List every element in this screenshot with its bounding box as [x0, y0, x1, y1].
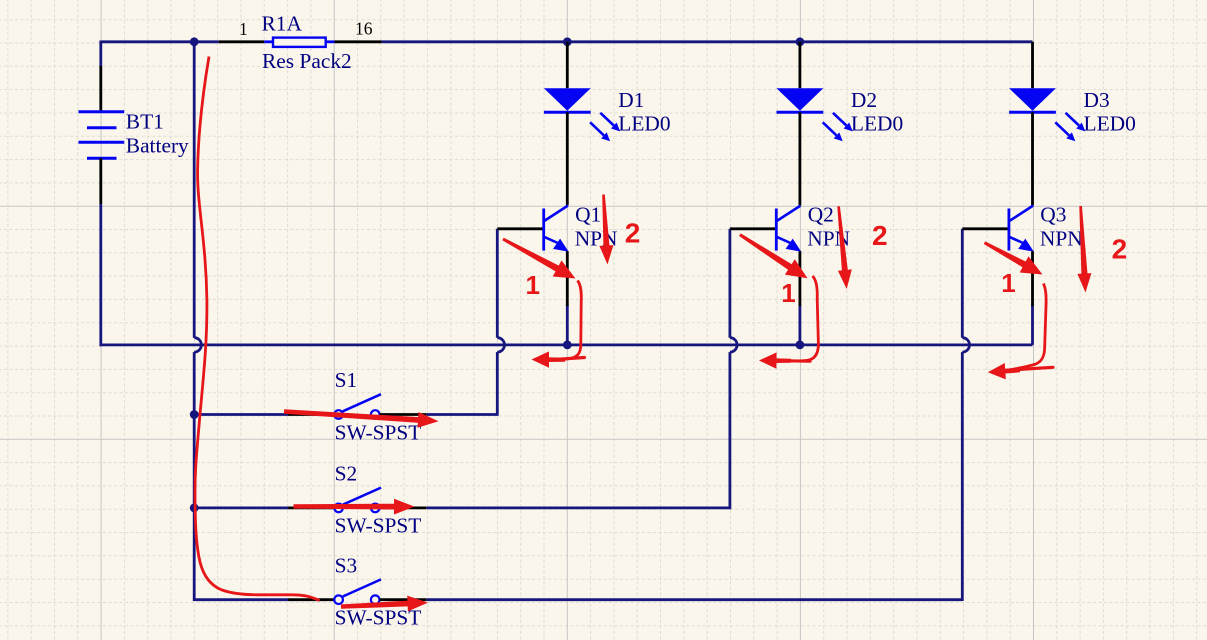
transistor Q1 emitter pin: [566, 251, 569, 306]
annotation: arrow through switch S2: [294, 499, 415, 515]
svg-text:S1: S1: [335, 368, 358, 392]
svg-text:Res Pack2: Res Pack2: [262, 49, 352, 73]
LED D1 body: [544, 88, 591, 112]
annotation: arrow through switch S3: [341, 596, 428, 612]
junction switch feed / S2: [190, 504, 199, 513]
LED D2 light-emission arrow 2: [823, 122, 843, 141]
svg-text:R1A: R1A: [262, 12, 303, 36]
svg-text:16: 16: [355, 19, 373, 39]
wire hop: Q1 base feed over bottom bus: [497, 338, 504, 352]
label SW-SPST value: [335, 514, 422, 538]
svg-text:Battery: Battery: [126, 134, 189, 158]
resistor R1A pin 16 lead: [326, 40, 382, 43]
LED D2 anode pin: [799, 42, 802, 88]
wire battery negative to bottom bus: [99, 204, 102, 346]
label NPN value: [575, 227, 618, 251]
annotation: left arrowhead on bottom bus at Q2: [759, 352, 791, 368]
transistor Q3 emitter pin: [1031, 251, 1034, 306]
wire base feed vertical S3 to Q3: [961, 229, 964, 601]
switch S3 body: [334, 579, 381, 604]
wire hop: Q3 base feed over bottom bus: [962, 338, 969, 352]
junction top bus / D2: [796, 37, 805, 46]
svg-text:1: 1: [526, 270, 540, 300]
label S2 designator: [335, 462, 358, 486]
wire S3 row left segment: [194, 598, 288, 601]
svg-text:LED0: LED0: [618, 111, 670, 135]
LED D1 cathode pin: [566, 112, 569, 205]
label NPN value: [1040, 227, 1083, 251]
label S1 designator: [335, 368, 358, 392]
annotation: arrow 2 at Q1: [599, 194, 613, 264]
label Res Pack2 value: [262, 49, 352, 73]
svg-text:D3: D3: [1084, 88, 1110, 112]
annotation: freehand current path at Q3: [1006, 284, 1053, 371]
LED D3 cathode pin: [1031, 112, 1034, 205]
annotation: arrow 1 pointing at Q2 collector: [739, 233, 807, 278]
wire top bus left (battery+ to R1A pin1): [101, 40, 219, 43]
switch S1 right pin: [380, 413, 427, 416]
label Q2 designator: [808, 203, 834, 227]
transistor Q2 emitter pin: [799, 251, 802, 306]
svg-text:Q3: Q3: [1040, 203, 1066, 227]
resistor R1A pin 1 lead: [219, 40, 273, 43]
annotation: red freehand stroke from top bus to S3: [195, 57, 320, 601]
label Battery value: [126, 134, 189, 158]
wire S1 row left segment: [194, 413, 288, 416]
annotation: freehand current path at Q1: [551, 281, 585, 360]
svg-text:LED0: LED0: [851, 111, 903, 135]
LED D3 light-emission arrow 2: [1055, 122, 1075, 141]
wire base feed vertical S2 to Q2: [729, 229, 732, 509]
switch S1 left pin: [288, 413, 334, 416]
junction switch feed / S1: [190, 410, 199, 419]
LED D1 anode pin: [566, 42, 569, 88]
svg-text:1: 1: [781, 278, 795, 308]
label D3 designator: [1084, 88, 1110, 112]
label R1A designator: [262, 12, 303, 36]
wire S2 row left segment: [194, 506, 288, 509]
svg-text:BT1: BT1: [126, 110, 164, 134]
transistor Q3 body: [1009, 206, 1034, 252]
transistor Q3 base pin: [962, 227, 1009, 230]
annotation: number 1 at Q1: [526, 270, 540, 300]
LED D2 cathode pin: [799, 112, 802, 205]
svg-text:Q1: Q1: [575, 203, 601, 227]
switch S2 left pin: [288, 506, 334, 509]
label S3 designator: [335, 553, 358, 577]
switch S3 right pin: [380, 598, 427, 601]
wire bottom bus (emitter/ground rail): [101, 343, 1033, 346]
wire Q3 emitter to bottom bus: [1031, 305, 1034, 345]
label LED0 value: [1084, 111, 1136, 135]
annotation: freehand current path at Q2: [777, 276, 818, 361]
resistor R1A body: [273, 38, 326, 47]
wire hop: switch feed over bottom bus: [194, 338, 201, 352]
wire Q2 emitter to bottom bus: [799, 305, 802, 345]
wire S3 row right segment to base feed: [427, 598, 963, 601]
svg-text:S2: S2: [335, 462, 358, 486]
switch S3 left pin: [288, 598, 334, 601]
junction bottom bus / Q2 emitter: [796, 341, 805, 350]
junction top bus / D1: [563, 37, 572, 46]
pin number 16: [355, 19, 373, 39]
svg-text:D1: D1: [618, 88, 644, 112]
label D2 designator: [851, 88, 877, 112]
svg-text:LED0: LED0: [1084, 111, 1136, 135]
label D1 designator: [618, 88, 644, 112]
svg-text:D2: D2: [851, 88, 877, 112]
label SW-SPST value: [335, 420, 422, 444]
junction top bus / switch feed: [190, 37, 199, 46]
wire hop: Q2 base feed over bottom bus: [730, 338, 737, 352]
annotation: arrow 1 pointing at Q1 collector: [502, 238, 575, 279]
label Q3 designator: [1040, 203, 1066, 227]
svg-text:2: 2: [872, 220, 888, 251]
LED D3 light-emission arrow 1: [1066, 113, 1086, 132]
label SW-SPST value: [335, 606, 422, 630]
svg-text:2: 2: [1112, 234, 1128, 265]
transistor Q2 base pin: [730, 227, 776, 230]
junction bottom bus / Q1 emitter: [563, 341, 572, 350]
wire switch feed vertical from top junction: [193, 42, 196, 601]
label BT1 designator: [126, 110, 164, 134]
annotation: left arrowhead on bottom bus at Q1: [532, 351, 566, 367]
annotation: arrow through switch S1: [284, 409, 439, 428]
svg-text:1: 1: [1001, 268, 1015, 298]
annotation: arrow 2 at Q3: [1077, 206, 1091, 293]
battery BT1: [79, 66, 125, 204]
svg-text:2: 2: [625, 217, 641, 248]
wire S1 row right segment to base feed: [427, 413, 498, 416]
wire base feed vertical S1 to Q1: [496, 229, 499, 416]
annotation: number 1 at Q2: [781, 278, 795, 308]
pin number 1: [239, 19, 248, 39]
annotation: number 2 at Q1: [625, 217, 641, 248]
LED D1 light-emission arrow 2: [590, 122, 610, 141]
svg-text:S3: S3: [335, 553, 358, 577]
wire S2 row right segment to base feed: [427, 506, 730, 509]
switch S2 body: [334, 488, 381, 513]
annotation: number 2 at Q3: [1112, 234, 1128, 265]
label LED0 value: [618, 111, 670, 135]
switch S1 body: [334, 394, 381, 419]
wire Q1 emitter to bottom bus: [566, 305, 569, 345]
LED D2 light-emission arrow 1: [833, 113, 853, 132]
wire top bus right (R1A pin16 to D3 anode): [382, 40, 1033, 43]
transistor Q1 base pin: [497, 227, 543, 230]
label NPN value: [807, 227, 850, 251]
svg-text:1: 1: [239, 19, 248, 39]
label LED0 value: [851, 111, 903, 135]
label Q1 designator: [575, 203, 601, 227]
switch S2 right pin: [380, 506, 427, 509]
LED D3 anode pin: [1031, 42, 1034, 88]
annotation: number 2 at Q2: [872, 220, 888, 251]
transistor Q2 body: [776, 206, 801, 252]
LED D1 light-emission arrow 1: [600, 113, 620, 132]
annotation: arrow 2 at Q2: [837, 206, 852, 289]
transistor Q1 body: [544, 206, 569, 252]
annotation: number 1 at Q3: [1001, 268, 1015, 298]
svg-text:Q2: Q2: [808, 203, 834, 227]
annotation: left arrowhead on bottom bus at Q3: [988, 363, 1020, 379]
svg-text:SW-SPST: SW-SPST: [335, 420, 422, 444]
LED D2 body: [777, 88, 824, 112]
LED D3 body: [1009, 88, 1056, 112]
svg-text:SW-SPST: SW-SPST: [335, 514, 422, 538]
svg-text:NPN: NPN: [1040, 227, 1083, 251]
wire battery positive stub: [99, 41, 102, 67]
annotation: arrow 1 pointing at Q3 collector: [984, 241, 1043, 274]
